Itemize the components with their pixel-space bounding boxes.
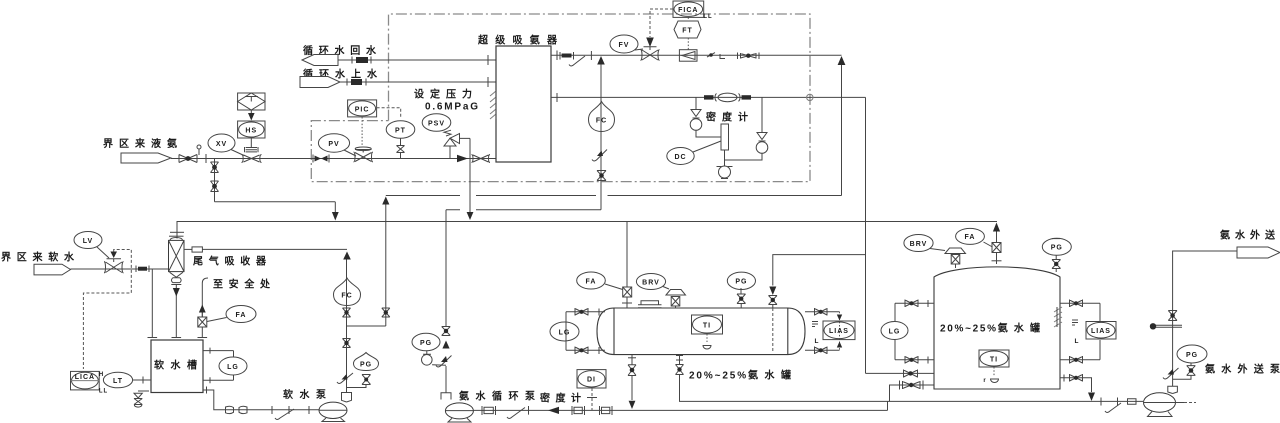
instrument LV balloon (74, 232, 109, 259)
solid black valve on ammonia line (313, 155, 329, 163)
breather valve tank1 (666, 290, 686, 309)
flange tick return line (487, 55, 489, 65)
label 氨水外送 (1220, 229, 1276, 242)
wire tank1 vent line from header (626, 222, 628, 288)
instrument TI box tank2 (979, 350, 1009, 367)
instrument TI box tank1 (692, 315, 723, 334)
svg-text:氨水外送泵: 氨水外送泵 (1205, 363, 1280, 376)
wire wash water line to absorber (202, 248, 347, 250)
svg-text:TI: TI (990, 356, 998, 363)
junction circle with border (807, 94, 813, 100)
label 尾气吸收器 (193, 255, 267, 268)
wire tank1 outlet 2 to transfer header (680, 375, 890, 402)
instrument PSV balloon (422, 114, 451, 131)
LG bridle valves tank1 (575, 308, 588, 316)
svg-text:HS: HS (245, 128, 257, 135)
signal arrow onto LV valve (110, 252, 117, 259)
tank2 outlet right (1060, 375, 1095, 402)
flag soft water from battery limit (34, 264, 71, 275)
label 至安全处 (213, 278, 271, 291)
solid black valve on top outlet (560, 52, 574, 60)
valve with black center on ammonia line (179, 155, 197, 163)
flange tick supply line (487, 77, 489, 87)
density meter branch B valve (725, 97, 768, 160)
wire return water to absorber (338, 59, 496, 61)
svg-text:软水泵: 软水泵 (283, 388, 327, 401)
valve on recirculation riser (382, 308, 390, 317)
svg-text:FV: FV (619, 42, 630, 49)
svg-text:循环水回水: 循环水回水 (303, 44, 377, 57)
svg-text:20%~25%氨 水 罐: 20%~25%氨 水 罐 (689, 369, 791, 382)
instrument FA balloon tank1 (577, 272, 623, 290)
check slope on riser (337, 373, 353, 384)
branch to recirculation riser (347, 325, 386, 327)
svg-text:至安全处: 至安全处 (213, 278, 271, 291)
svg-text:BRV: BRV (910, 241, 928, 248)
flow element on top line (679, 50, 697, 62)
valve on supply water (solid) (347, 79, 366, 86)
instrument LICA box (71, 371, 109, 394)
wire circulation riser to absorber top line (600, 65, 602, 210)
soft water tank (151, 340, 203, 393)
block valve 1 on branch (211, 162, 219, 173)
wire line into tank2 upper fill (866, 372, 935, 374)
svg-text:界区来软水: 界区来软水 (1, 251, 75, 264)
LIAS bridle valves tank1 (815, 308, 828, 316)
signal LICA to LV dashed (83, 250, 131, 370)
wire drop with arrow to vent header (332, 202, 339, 221)
slope mark on suction (275, 409, 294, 420)
svg-text:L: L (815, 338, 820, 345)
LG bridle valves tank2 (905, 300, 918, 308)
instrument PG balloon tank1 (727, 272, 755, 289)
svg-text:界区来液氨: 界区来液氨 (103, 137, 177, 150)
tail gas absorber column (169, 236, 185, 271)
svg-text:FA: FA (586, 278, 597, 285)
svg-text:PG: PG (360, 362, 372, 369)
instrument BRV balloon tank1 (636, 274, 669, 290)
flag circulating water return (points left) (302, 55, 338, 66)
svg-text:尾气吸收器: 尾气吸收器 (193, 255, 267, 268)
label 密度计 (706, 111, 748, 124)
svg-text:r: r (983, 378, 986, 384)
svg-text:FA: FA (236, 312, 247, 319)
branch down from ammonia line (214, 159, 216, 202)
pump suction reducer (441, 366, 451, 400)
PG root valve (362, 375, 371, 385)
svg-text:DI: DI (587, 377, 596, 384)
wire bottom suction joins transfer header (887, 401, 889, 410)
vessel super ammonia absorber (496, 46, 551, 162)
svg-text:XV: XV (216, 141, 227, 148)
DI probe dashed to line (587, 388, 597, 410)
PSV relief valve (444, 130, 470, 158)
svg-text:PG: PG (1186, 352, 1198, 359)
check flap on transfer riser (1163, 368, 1179, 379)
transfer pump discharge reducer (1168, 386, 1178, 393)
svg-text:氨水外送: 氨水外送 (1220, 229, 1276, 242)
flow arrow left on suction (548, 407, 559, 414)
LIAS bridle tank1 (805, 312, 842, 351)
PG root valve transfer (1173, 363, 1196, 379)
LV control valve (104, 259, 124, 273)
interlock logic box (238, 93, 265, 110)
absorber support hatch (490, 91, 496, 119)
arrow soft water joins top line end (838, 56, 846, 65)
svg-text:LIAS: LIAS (1091, 328, 1111, 335)
fill valve tank2 (900, 381, 924, 390)
valve on pump discharge (442, 327, 451, 336)
absorber bottom cone and pot (170, 272, 184, 284)
suction hose coupling 2 (572, 406, 585, 415)
valve on circulation riser (597, 171, 606, 181)
gate valve before absorber (472, 155, 491, 163)
wire recirculation header (386, 195, 842, 197)
signal PIC to PT (377, 108, 401, 118)
vessel vertical ammonia tank 2 (934, 267, 1060, 389)
suction hose coupling 3 (600, 406, 613, 415)
flag liquid ammonia from battery limit (121, 153, 171, 163)
slope check on circulation riser (592, 150, 607, 162)
level switch marks tank1 (812, 322, 819, 346)
svg-text:氨水循环泵: 氨水循环泵 (459, 390, 536, 403)
label 20%~25%氨水罐 tank1 (689, 369, 791, 382)
XV shutoff valve on ammonia line (242, 155, 262, 163)
tank top nozzle ticks (148, 337, 208, 339)
signal FICA to FV with arrow (646, 9, 673, 47)
discharge gate valve (1168, 311, 1177, 321)
signal FT links (687, 17, 689, 50)
TI thermowell tank2 (983, 367, 998, 384)
svg-text:PV: PV (328, 141, 339, 148)
instrument FT balloon (674, 21, 701, 38)
density meter lower pot (717, 150, 733, 179)
wire tank1 fill dip line (769, 255, 865, 295)
wire riser to tank2 fill (890, 385, 935, 401)
instrument PG balloon teardrop (354, 353, 379, 371)
wire pump discharge header (446, 209, 601, 211)
drain slope mark (569, 56, 585, 66)
svg-text:超级吸氨器: 超级吸氨器 (477, 34, 558, 47)
svg-text:L: L (1075, 338, 1080, 345)
svg-text:TI: TI (703, 322, 711, 329)
instrument LIAS box tank1 (823, 321, 855, 340)
pump ammonia circulation pump (445, 403, 473, 422)
wire soft pump discharge riser (346, 260, 348, 393)
wire circulation pump suction line (473, 409, 887, 411)
LIAS bridle valves tank2 (1070, 300, 1083, 308)
tank2 support hatch (1054, 307, 1062, 327)
signal PIC to control valve (361, 117, 363, 147)
instrument LG balloon tank1 (550, 322, 579, 341)
PG tap on soft pump (347, 385, 367, 388)
instrument FA balloon tank2 (956, 228, 993, 247)
instrument PG balloon transfer (1177, 345, 1207, 363)
instrument LG balloon (219, 357, 247, 375)
flexible joint on mid outlet (704, 93, 751, 102)
flange tick (556, 93, 558, 102)
tank1 bottom outlet 1 (628, 355, 636, 409)
LG bridle soft tank (203, 348, 234, 384)
instrument FICA box (673, 1, 713, 20)
upper fill valve tank2 (904, 370, 918, 378)
LIAS bridle tank2 (1060, 303, 1100, 360)
flange tick (556, 51, 558, 61)
PG pot and tap (422, 351, 447, 366)
arrow wash line junction (343, 252, 351, 260)
LG bridle tank1 (566, 309, 605, 355)
svg-text:设定压力: 设定压力 (414, 88, 472, 101)
wire tank2 vent to header with arrow (992, 223, 1002, 265)
PT root valve (397, 138, 405, 159)
flange ticks suction (272, 406, 309, 414)
wire absorber mid outlet line (551, 96, 866, 98)
instrument PIC box (348, 100, 377, 117)
wire tank outlet to soft water pump (203, 387, 320, 410)
wire riser from recirculation header to top line (841, 65, 843, 196)
check valve flap on discharge (436, 356, 452, 368)
svg-text:密度计: 密度计 (706, 111, 748, 124)
flame arrestor on safety vent (198, 317, 207, 338)
instrument XV balloon (208, 134, 244, 156)
svg-text:FC: FC (596, 118, 607, 125)
dip tube dashed inside tank1 (772, 305, 774, 353)
FV control valve (641, 47, 660, 61)
tank1 bottom outlet 2 (676, 355, 684, 375)
label 循环水回水 (303, 44, 377, 57)
label 软水泵 (283, 388, 327, 401)
svg-text:FICA: FICA (678, 7, 698, 14)
flow arrow up on discharge (442, 341, 449, 349)
flange tick (205, 154, 207, 163)
block valve 2 on branch (211, 181, 219, 192)
flange black on soft water line (136, 266, 149, 273)
svg-text:PG: PG (735, 279, 747, 286)
flag circulating water supply (points right) (300, 77, 340, 88)
svg-text:PG: PG (1051, 245, 1063, 252)
svg-text:DC: DC (674, 154, 686, 161)
instrument FA balloon (207, 306, 256, 323)
arrow interlock to HS (248, 110, 255, 121)
wire transfer pump suction header (890, 400, 1144, 402)
flange tick (590, 51, 592, 60)
svg-text:FC: FC (341, 293, 352, 300)
svg-text:H: H (99, 372, 104, 378)
instrument LIAS box tank2 (1086, 322, 1116, 340)
check valve small (707, 53, 725, 59)
wire branch horizontal to vent header (215, 201, 336, 203)
riser block valve lower (343, 339, 351, 348)
label 循环水上水 (303, 68, 378, 81)
svg-text:PIC: PIC (355, 106, 370, 113)
svg-text:LIAS: LIAS (829, 328, 849, 335)
instrument FC balloon teardrop upper (589, 102, 615, 132)
flag ammonia water send out (1237, 247, 1280, 258)
svg-text:LG: LG (559, 329, 571, 336)
wire main liquid ammonia line (171, 158, 496, 160)
PV control valve on ammonia line (354, 147, 374, 162)
flame arrestor tank2 vent (992, 243, 1001, 253)
spectacle blind on discharge (1150, 323, 1182, 329)
pump soft water pump (319, 402, 347, 421)
wire soft water line (71, 268, 169, 270)
instrument DC balloon (667, 141, 721, 165)
instrument FV balloon (610, 35, 643, 53)
svg-text:密度计: 密度计 (540, 392, 581, 405)
flange tick on absorber feed (170, 231, 184, 233)
PG root valve tank1 (737, 288, 746, 308)
svg-text:软水槽: 软水槽 (154, 359, 197, 372)
instrument PT balloon (386, 121, 415, 138)
svg-text:20%~25%氨 水 罐: 20%~25%氨 水 罐 (940, 322, 1040, 335)
instrument PV balloon (318, 134, 356, 156)
instrument PG balloon tank2 (1042, 238, 1071, 255)
hose coupling transfer suction (1128, 399, 1137, 405)
instrument enclosure dash-dot border (311, 14, 810, 182)
instrument PG balloon circulation pump (412, 333, 440, 350)
label 超级吸氨器 (477, 34, 558, 47)
slope mark transfer suction (1105, 403, 1121, 413)
instrument LT balloon (103, 372, 132, 388)
svg-text:LV: LV (83, 238, 93, 245)
pump discharge reducer (342, 393, 352, 403)
svg-text:LT: LT (113, 378, 123, 385)
suction gate valve (226, 406, 248, 413)
LT nozzle wire (133, 377, 151, 384)
outlet valve tank2 (1070, 374, 1083, 382)
wire soft water branch down into tank (151, 269, 153, 338)
instrument FC balloon teardrop (334, 278, 361, 306)
LG bridle tank2 (895, 300, 934, 364)
riser block valve upper (343, 308, 351, 317)
svg-text:FA: FA (965, 234, 976, 241)
suction hose coupling 1 (482, 406, 496, 415)
flange ticks transfer suction (1101, 398, 1118, 406)
svg-text:LL: LL (99, 389, 108, 395)
wire recirculation riser to header (382, 197, 389, 327)
wire circulation pump discharge riser (445, 210, 447, 326)
label 界区来软水 (1, 251, 75, 264)
label 设定压力 (414, 88, 472, 101)
PG root valve tank2 (1052, 255, 1061, 272)
arrow circulation joins top line (597, 56, 605, 65)
svg-text:BRV: BRV (642, 279, 660, 286)
breather valve tank2 (945, 248, 966, 268)
label 密度计 lower (540, 392, 581, 405)
svg-text:LICA: LICA (75, 374, 95, 381)
svg-text:LG: LG (227, 364, 239, 371)
svg-text:PT: PT (395, 127, 406, 134)
fill line valve tank1 (769, 296, 778, 305)
label 氨水外送泵 (1205, 363, 1280, 376)
label 氨水循环泵 (459, 390, 536, 403)
flame arrestor tank1 vent (622, 287, 632, 308)
label 界区来液氨 (103, 137, 177, 150)
pump ammonia transfer pump (1144, 393, 1197, 417)
absorber vent nozzle (184, 247, 202, 252)
small vent stem (197, 145, 201, 155)
svg-text:PG: PG (420, 340, 432, 347)
valve on return water (solid) (352, 57, 371, 64)
manway nozzle tank1 (638, 301, 662, 308)
instrument DI box (577, 370, 606, 388)
tank drain funnel (134, 391, 149, 407)
label 20%~25%氨水罐 tank2 (940, 322, 1040, 335)
wire PSV discharge down to vent header (467, 138, 474, 220)
wire transfer discharge riser (1173, 251, 1237, 386)
instrument BRV balloon tank2 (904, 235, 945, 252)
wire absorber drain to tank with arrow (173, 284, 180, 338)
valve with black center on top line (738, 53, 760, 60)
slope mark suction (507, 406, 529, 419)
density meter branch A valve (690, 97, 721, 137)
svg-text:FT: FT (682, 28, 693, 35)
wire absorber top outlet line (551, 54, 842, 56)
flow arrow on ammonia line (457, 155, 468, 162)
vent header to tail gas absorber (177, 222, 997, 239)
density meter element bar (721, 124, 729, 150)
svg-text:LL: LL (703, 14, 712, 20)
vessel horizontal ammonia tank 1 (597, 308, 805, 355)
actuator of XV valve (245, 138, 259, 152)
svg-text:0.6MPaG: 0.6MPaG (425, 102, 478, 113)
wire supply water to absorber (340, 81, 496, 83)
label 0.6MPaG (425, 102, 478, 113)
svg-text:PSV: PSV (428, 120, 445, 127)
wire vent to safe location with hook (202, 278, 208, 317)
svg-text:LG: LG (889, 328, 901, 335)
TI thermowell tank1 (703, 334, 711, 349)
level switch marks tank2 (1072, 320, 1079, 345)
instrument LG balloon tank2 (881, 322, 908, 340)
label 软水槽 (154, 359, 197, 372)
wire line down to ammonia tank area (865, 97, 867, 373)
instrument HS (238, 121, 265, 138)
arrow up on safety vent (199, 305, 206, 318)
